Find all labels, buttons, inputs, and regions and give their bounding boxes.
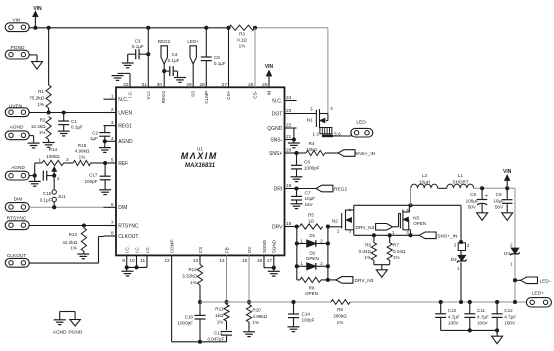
net VIN arrow at pin25 (265, 64, 274, 88)
transistor N2 (332, 205, 354, 235)
junction DRI node (294, 186, 298, 190)
wire DRI row to flag (297, 188, 316, 190)
svg-text:4: 4 (406, 207, 409, 212)
svg-text:OPEN: OPEN (305, 291, 318, 296)
svg-text:SGND: SGND (272, 239, 277, 253)
svg-text:0.1µF: 0.1µF (168, 58, 180, 63)
wire OV pin15 drop (248, 255, 250, 302)
svg-text:31: 31 (141, 82, 147, 88)
svg-text:50V: 50V (495, 205, 504, 210)
capacitor C3 0.1uF (132, 39, 148, 60)
svg-text:13: 13 (193, 258, 199, 264)
svg-text:24: 24 (286, 95, 292, 101)
svg-text:10µF: 10µF (305, 196, 316, 201)
junction C2/AGND pin4 (103, 139, 107, 143)
junction C11 (468, 300, 472, 304)
svg-text:9: 9 (122, 258, 125, 264)
capacitor C5 0.1uF (201, 28, 226, 88)
svg-text:3.32kΩ: 3.32kΩ (182, 274, 197, 279)
svg-text:1: 1 (510, 262, 513, 267)
svg-text:75.2kΩ: 75.2kΩ (29, 96, 44, 101)
svg-text:4.99kΩ: 4.99kΩ (75, 148, 90, 153)
svg-text:1%: 1% (79, 154, 86, 159)
junction D3 bottom (459, 300, 463, 304)
svg-text:28: 28 (199, 82, 205, 88)
svg-text:C4: C4 (172, 52, 178, 57)
svg-text:3: 3 (310, 107, 313, 112)
svg-text:AGND: AGND (53, 329, 67, 335)
svg-text:D3: D3 (451, 257, 457, 262)
resistor R7 0.04ohm (387, 235, 406, 264)
wire DRV right column (327, 227, 329, 280)
wire top VIN rail (35, 27, 328, 29)
svg-text:4.7µF: 4.7µF (504, 314, 516, 319)
wire COMP pin12 drop (171, 255, 173, 341)
svg-text:DRV_N3: DRV_N3 (355, 225, 374, 231)
IC U1 MAX16831 LED-driver body (116, 87, 285, 255)
wire rail corner to N1 drain (327, 28, 329, 114)
svg-text:CS: CS (198, 247, 203, 253)
svg-text:D4: D4 (504, 251, 510, 256)
ground C9 (502, 213, 513, 221)
svg-text:11: 11 (140, 258, 145, 264)
pad UVEN (5, 103, 29, 116)
svg-text:1: 1 (38, 157, 41, 162)
diode D1 (297, 233, 328, 247)
capacitor C7 10uF 16V (291, 189, 315, 207)
ground R6 R7 (376, 270, 387, 278)
resistor R13 42.2k (62, 228, 86, 252)
svg-text:17: 17 (267, 258, 273, 264)
svg-text:N1: N1 (307, 117, 313, 122)
svg-text:100V: 100V (504, 321, 516, 326)
svg-text:ΜΛXIΜ: ΜΛXIΜ (181, 151, 218, 161)
svg-text:C9: C9 (496, 192, 502, 197)
svg-text:FB: FB (224, 247, 229, 253)
svg-text:L1: L1 (458, 173, 464, 178)
transistor D3 dual diode (451, 243, 470, 302)
junction R3 right / pin26 (253, 26, 257, 30)
resistor R1 75.2k (29, 28, 51, 113)
resistor R6 0.04ohm (359, 235, 377, 264)
svg-text:50V: 50V (468, 205, 477, 210)
svg-text:3: 3 (111, 120, 114, 126)
pad VIN (5, 17, 29, 31)
svg-text:CLKOUT: CLKOUT (118, 234, 138, 240)
pad PGND (5, 45, 29, 59)
svg-text:16: 16 (257, 258, 263, 264)
junction R12/C16 (198, 300, 202, 304)
ground C6 (291, 177, 303, 182)
svg-text:3: 3 (349, 229, 352, 234)
svg-text:1µF: 1µF (90, 136, 98, 141)
junction C3 on VCC (146, 52, 150, 56)
wire D4 to LED- flag (515, 279, 521, 281)
ground R13 (77, 251, 89, 258)
svg-text:3: 3 (467, 243, 470, 248)
resistor R2 12.4k (31, 117, 51, 143)
svg-text:C11: C11 (477, 308, 486, 313)
svg-text:DRI: DRI (274, 186, 283, 192)
svg-text:4: 4 (330, 106, 333, 111)
svg-text:1000pF: 1000pF (304, 165, 320, 170)
transistor N1 (307, 106, 341, 137)
junction C12 (495, 300, 499, 304)
svg-text:0.04Ω: 0.04Ω (393, 249, 406, 254)
svg-text:4.99kΩ: 4.99kΩ (252, 314, 267, 319)
junction VIN arrow (33, 26, 37, 30)
svg-text:29: 29 (186, 82, 192, 88)
ground C8 (477, 213, 488, 221)
svg-text:MAX16831: MAX16831 (185, 163, 216, 169)
wire R8 to flag (328, 279, 336, 281)
svg-text:2: 2 (111, 107, 114, 113)
pad RTSYNC (5, 216, 29, 230)
svg-text:N2: N2 (332, 218, 338, 223)
diode D4 (504, 242, 520, 266)
ground pins 9-11 (122, 255, 148, 276)
svg-text:DRV_N3: DRV_N3 (355, 278, 374, 284)
svg-text:UVEN: UVEN (118, 110, 132, 116)
svg-text:OPEN: OPEN (306, 256, 319, 261)
svg-text:I.C.: I.C. (134, 246, 139, 253)
svg-text:7: 7 (111, 220, 114, 226)
svg-text:1%: 1% (364, 255, 371, 260)
wire rail to lower SNS flag (412, 234, 419, 236)
ground PGND top-left (32, 62, 43, 70)
junction VIN/C9 (505, 186, 509, 190)
resistor R12 3.32k (182, 255, 202, 302)
wire COMP bottom row (172, 341, 227, 343)
svg-text:1%: 1% (252, 320, 259, 325)
svg-text:R2: R2 (40, 118, 46, 123)
svg-text:CLMP: CLMP (204, 91, 209, 104)
capacitor C2 1uF (90, 126, 110, 142)
junction D2 right (326, 264, 330, 268)
svg-text:12: 12 (164, 258, 170, 264)
ground R10 (243, 332, 255, 337)
capacitor C17 100pF (84, 163, 110, 189)
svg-text:SNS-: SNS- (270, 137, 282, 143)
svg-text:REG1: REG1 (118, 123, 132, 129)
svg-text:19: 19 (286, 183, 292, 189)
svg-text:UVEN: UVEN (9, 103, 23, 109)
svg-text:DIM: DIM (14, 196, 23, 202)
svg-text:LED+: LED+ (532, 290, 544, 296)
junction FB node (224, 300, 228, 304)
svg-text:10kΩ: 10kΩ (306, 147, 317, 152)
junction N3 source (408, 233, 412, 237)
ground C3 (122, 54, 136, 68)
capacitor C15 0.1uF (40, 171, 55, 203)
wire output rail (200, 301, 527, 303)
junction R8 right (326, 278, 330, 282)
svg-text:R14: R14 (49, 147, 58, 152)
wire switch node to D3 (460, 205, 462, 241)
svg-text:R10: R10 (252, 307, 261, 312)
junction R1/R2 (47, 110, 51, 114)
svg-text:LED-: LED- (540, 278, 551, 284)
wire VIN pad to rail (29, 27, 35, 29)
svg-text:1kΩ: 1kΩ (215, 313, 224, 318)
svg-text:I.C.: I.C. (125, 246, 130, 253)
wire VCC pin31 to rail (147, 28, 149, 88)
svg-text:2: 2 (510, 242, 513, 247)
svg-text:R1: R1 (38, 89, 44, 94)
wire RTSYNC row (29, 225, 103, 227)
svg-text:10: 10 (129, 258, 135, 264)
svg-text:100V: 100V (448, 321, 460, 326)
junction D1 left (295, 241, 299, 245)
svg-text:C13: C13 (214, 331, 223, 336)
svg-text:1: 1 (392, 230, 395, 235)
svg-text:SS: SS (191, 91, 196, 97)
capacitor C10 4.7uF 100V (435, 302, 460, 330)
junction C1 (62, 110, 66, 114)
inductor L1 SHORT (447, 173, 474, 188)
junction R3 left / pin27 (226, 26, 230, 30)
inductor L2 10uH (411, 173, 438, 188)
wire DGT pin23 to N1 gate (297, 113, 317, 115)
svg-text:12.4kΩ: 12.4kΩ (31, 124, 46, 129)
junction C8 (480, 186, 484, 190)
potentiometer R14 100k (38, 147, 69, 181)
svg-text:1Ω: 1Ω (308, 218, 315, 223)
svg-text:1 2: 1 2 (313, 131, 320, 136)
svg-text:1%: 1% (190, 280, 197, 285)
junction R5 right node (326, 224, 330, 228)
wire R4 to flag (325, 152, 338, 154)
svg-text:1: 1 (337, 229, 340, 234)
svg-text:REG2: REG2 (161, 90, 166, 103)
svg-text:C15: C15 (43, 191, 52, 196)
ground pair AGND PGND bridge (60, 312, 75, 320)
flag DRV_N3 lower (336, 277, 374, 285)
junction wiper/C14 (52, 174, 56, 178)
svg-text:SNS+_IN: SNS+_IN (437, 234, 458, 240)
ground output caps (492, 330, 503, 343)
junction C5 on rail (204, 26, 208, 30)
wire CLKOUT route (29, 237, 103, 264)
junction D3 top (459, 240, 463, 244)
wire FB pin14 drop (226, 255, 228, 302)
flag SNS+_IN lower (419, 232, 458, 240)
junction OV node (247, 300, 251, 304)
svg-text:26: 26 (248, 82, 254, 88)
svg-text:SNS+: SNS+ (269, 151, 282, 157)
svg-text:42.2kΩ: 42.2kΩ (62, 240, 77, 245)
svg-text:AGND: AGND (10, 124, 24, 130)
svg-text:20: 20 (286, 148, 292, 154)
svg-text:100pF: 100pF (84, 179, 97, 184)
ground C4 (174, 71, 186, 82)
junction VCC on rail (146, 26, 150, 30)
svg-text:2: 2 (320, 238, 323, 243)
svg-text:1%: 1% (37, 102, 44, 107)
svg-text:1: 1 (300, 238, 303, 243)
svg-text:PGND: PGND (68, 329, 82, 335)
svg-text:280kΩ: 280kΩ (333, 314, 347, 319)
svg-text:1: 1 (111, 94, 114, 100)
svg-text:C3: C3 (135, 39, 141, 44)
svg-text:27: 27 (222, 82, 228, 88)
flag REG2 (316, 185, 347, 192)
junction JU1 on DIM (52, 205, 56, 209)
svg-text:32: 32 (123, 82, 129, 88)
junction C11 bottom (468, 328, 472, 332)
svg-text:22: 22 (286, 123, 292, 129)
ground C17 (99, 190, 111, 195)
svg-text:AGND: AGND (118, 139, 133, 145)
net VIN arrow right (503, 169, 512, 188)
svg-text:4.7µF: 4.7µF (477, 314, 489, 319)
svg-text:3: 3 (66, 157, 69, 162)
svg-text:14: 14 (219, 258, 225, 264)
resistor R3 0.1ohm (229, 25, 256, 48)
svg-text:16V: 16V (305, 202, 314, 207)
U1 left pins 1-8 stubs, numbers and names (104, 94, 140, 240)
ground QGND SNS- pins 21-22 (288, 128, 300, 148)
svg-text:1%: 1% (39, 130, 46, 135)
capacitor C1 0.1uF (58, 113, 83, 131)
wire N1 source to LED- pad (333, 133, 351, 136)
wire DRV left column (296, 227, 298, 280)
U1 bottom pins 9-17 numbers and rotated names (122, 239, 276, 264)
svg-text:RTSYNC: RTSYNC (118, 223, 139, 229)
svg-text:8: 8 (111, 231, 114, 237)
svg-text:I.C.: I.C. (128, 91, 133, 98)
wire source rail (354, 234, 412, 236)
svg-text:LED+: LED+ (187, 39, 199, 44)
svg-text:R5: R5 (308, 212, 314, 217)
ground PGND symbol bottom-left (68, 320, 82, 336)
capacitor C14 100pF (288, 302, 315, 326)
wire DIM row (29, 206, 103, 208)
svg-text:R13: R13 (69, 232, 78, 237)
wire AGND pad to ground (29, 136, 33, 143)
diode D2 OPEN (297, 251, 328, 270)
svg-text:0.04Ω: 0.04Ω (359, 249, 372, 254)
svg-text:1%: 1% (217, 319, 224, 324)
capacitor C16 1000pF (177, 302, 205, 342)
junction C12 bottom (495, 328, 499, 332)
junction C4 on REG2 (162, 69, 166, 73)
svg-text:4.7µF: 4.7µF (448, 314, 460, 319)
junction R13 (82, 223, 86, 227)
ground AGND pin4 (99, 141, 111, 152)
svg-text:C8: C8 (470, 192, 476, 197)
svg-text:2: 2 (320, 261, 323, 266)
svg-text:23: 23 (286, 108, 292, 114)
svg-text:21: 21 (286, 134, 292, 140)
svg-text:3: 3 (406, 230, 409, 235)
ground AGND node (29, 176, 41, 187)
wire PGND pad to ground (29, 55, 37, 62)
svg-text:C1: C1 (71, 119, 77, 124)
transistor N3 OPEN (392, 205, 426, 235)
capacitor C11 4.7uF 100V (464, 302, 489, 330)
svg-text:R9: R9 (337, 307, 343, 312)
svg-text:1000pF: 1000pF (177, 321, 193, 326)
svg-text:1%: 1% (70, 246, 77, 251)
svg-text:0.1µF: 0.1µF (71, 124, 83, 129)
svg-text:+: + (485, 193, 488, 199)
junction C14 tap (291, 300, 295, 304)
svg-text:SHORT: SHORT (453, 179, 469, 184)
svg-text:R3: R3 (239, 32, 245, 37)
svg-text:QGND: QGND (267, 126, 282, 132)
svg-text:2: 2 (454, 243, 457, 248)
svg-text:DRV: DRV (272, 224, 283, 230)
wire DRV node to N2 gate (328, 226, 342, 228)
svg-text:VIN: VIN (503, 169, 512, 175)
svg-text:18: 18 (286, 221, 292, 227)
svg-text:D1: D1 (309, 233, 315, 238)
ground C14 (288, 327, 300, 332)
jumper JU1 (52, 176, 66, 208)
junction N3 drain / L2 drop (408, 203, 412, 207)
ground C7 (291, 204, 303, 209)
svg-text:VIN: VIN (33, 6, 42, 12)
junction R7 top (388, 233, 392, 237)
pad LED- (351, 120, 373, 137)
svg-text:10µH: 10µH (419, 179, 430, 184)
svg-text:100V: 100V (477, 321, 489, 326)
wire cap bottoms tie (441, 329, 497, 331)
svg-text:C17: C17 (89, 172, 98, 177)
wire VIN rail to D4 (514, 188, 516, 302)
junction D4 bottom (513, 300, 517, 304)
wire SNS+ row to R4 (297, 152, 307, 154)
svg-text:5: 5 (111, 158, 114, 164)
pin 32 ground I.C. (112, 73, 131, 87)
wire pin26 drop (254, 28, 256, 88)
ground AGND pad upper (28, 143, 40, 148)
resistor R10 4.99k (246, 302, 267, 331)
wire switch node row (354, 204, 461, 206)
svg-text:REG2: REG2 (158, 39, 171, 44)
svg-text:IN: IN (267, 91, 272, 96)
svg-text:C7: C7 (305, 191, 311, 196)
svg-text:VIN: VIN (265, 64, 274, 70)
net VIN symbol top-left (33, 6, 42, 28)
svg-text:R7: R7 (393, 243, 399, 248)
svg-text:SNS+_IN: SNS+_IN (355, 151, 376, 157)
U1 top pins 25-32 numbers and rotated names (123, 82, 271, 104)
svg-text:R11: R11 (215, 307, 224, 312)
svg-text:R4: R4 (309, 141, 315, 146)
U1 right pins 18-24 stubs, numbers and names (267, 95, 296, 230)
capacitor C4 0.1uF (164, 52, 179, 76)
svg-text:100µF: 100µF (466, 198, 479, 203)
resistor R11 1k (215, 302, 229, 330)
svg-text:C14: C14 (302, 311, 311, 316)
capacitor C6 1000pF (291, 153, 320, 176)
svg-text:C12: C12 (504, 308, 513, 313)
svg-text:100pF: 100pF (302, 317, 315, 322)
resistor R9 280k (331, 300, 350, 325)
svg-text:4: 4 (111, 136, 114, 142)
svg-text:R8: R8 (309, 286, 315, 291)
junction D1 right (326, 241, 330, 245)
pad AGND upper (5, 124, 29, 139)
svg-text:1%: 1% (337, 320, 344, 325)
svg-text:15: 15 (242, 258, 248, 264)
svg-text:R6: R6 (365, 243, 371, 248)
junction DRV node (295, 224, 299, 228)
svg-text:C10: C10 (448, 308, 457, 313)
pad CLKOUT (5, 253, 29, 267)
